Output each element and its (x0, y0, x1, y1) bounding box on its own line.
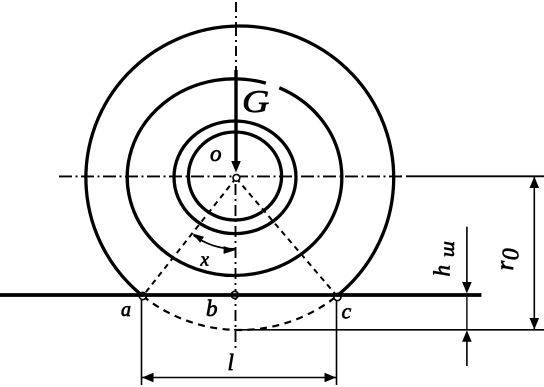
center marker o (233, 174, 240, 181)
third circle (rim) (174, 121, 296, 234)
h_sh connector between lines (466, 297, 468, 330)
dashed radius line o-a (143, 178, 236, 296)
svg-text:hш: hш (430, 241, 460, 277)
extension line below a (141, 300, 143, 385)
angle x arc (194, 235, 236, 249)
extension line below c (336, 301, 338, 385)
outer tire circle (solid, from contact point a over top to c) (86, 26, 394, 296)
r0 dimension line (533, 177, 535, 330)
point marker c (334, 293, 341, 300)
fourth circle (hub) (188, 132, 281, 220)
point marker a (139, 292, 146, 299)
svg-text:x: x (200, 250, 210, 271)
vertical centerline below center through b (235, 184, 237, 351)
svg-text:G: G (242, 84, 269, 120)
dimension l left arrowhead (142, 373, 154, 383)
vertical centerline above wheel (235, 2, 237, 70)
force G arrowhead (231, 161, 241, 173)
dimension line l (142, 377, 336, 379)
h_sh lower arrowhead (up at reference line) (462, 330, 472, 342)
dimension l right arrowhead (325, 373, 337, 383)
svg-text:l: l (228, 350, 234, 375)
svg-text:b: b (206, 296, 218, 321)
svg-text:o: o (210, 141, 222, 166)
dashed radius line o-c (236, 178, 337, 297)
point marker b (231, 291, 238, 298)
horizontal centerline right solid portion (400, 175, 544, 177)
svg-text:c: c (342, 299, 352, 324)
force G arrow shaft (234, 70, 237, 161)
bottom reference line (undeformed radius level) (234, 329, 544, 331)
ground line (0, 293, 481, 297)
r0 upper arrowhead (530, 177, 540, 189)
angle arc arrowhead left (on o-a line) (192, 234, 204, 243)
angle arc arrowhead right (at centerline) (224, 246, 236, 254)
h_sh upper arrowhead (down at ground line) (462, 282, 472, 294)
svg-text:r0: r0 (492, 248, 525, 270)
h_sh dimension upper line (466, 227, 468, 290)
r0 lower arrowhead (530, 318, 540, 330)
horizontal centerline (dash-dot through wheel center) (59, 175, 402, 177)
second circle (tire inner edge) with gap near G (127, 79, 342, 276)
h_sh lower arrow shaft (466, 341, 468, 366)
svg-text:a: a (121, 299, 131, 321)
dashed undeformed tire arc below ground (143, 296, 337, 330)
